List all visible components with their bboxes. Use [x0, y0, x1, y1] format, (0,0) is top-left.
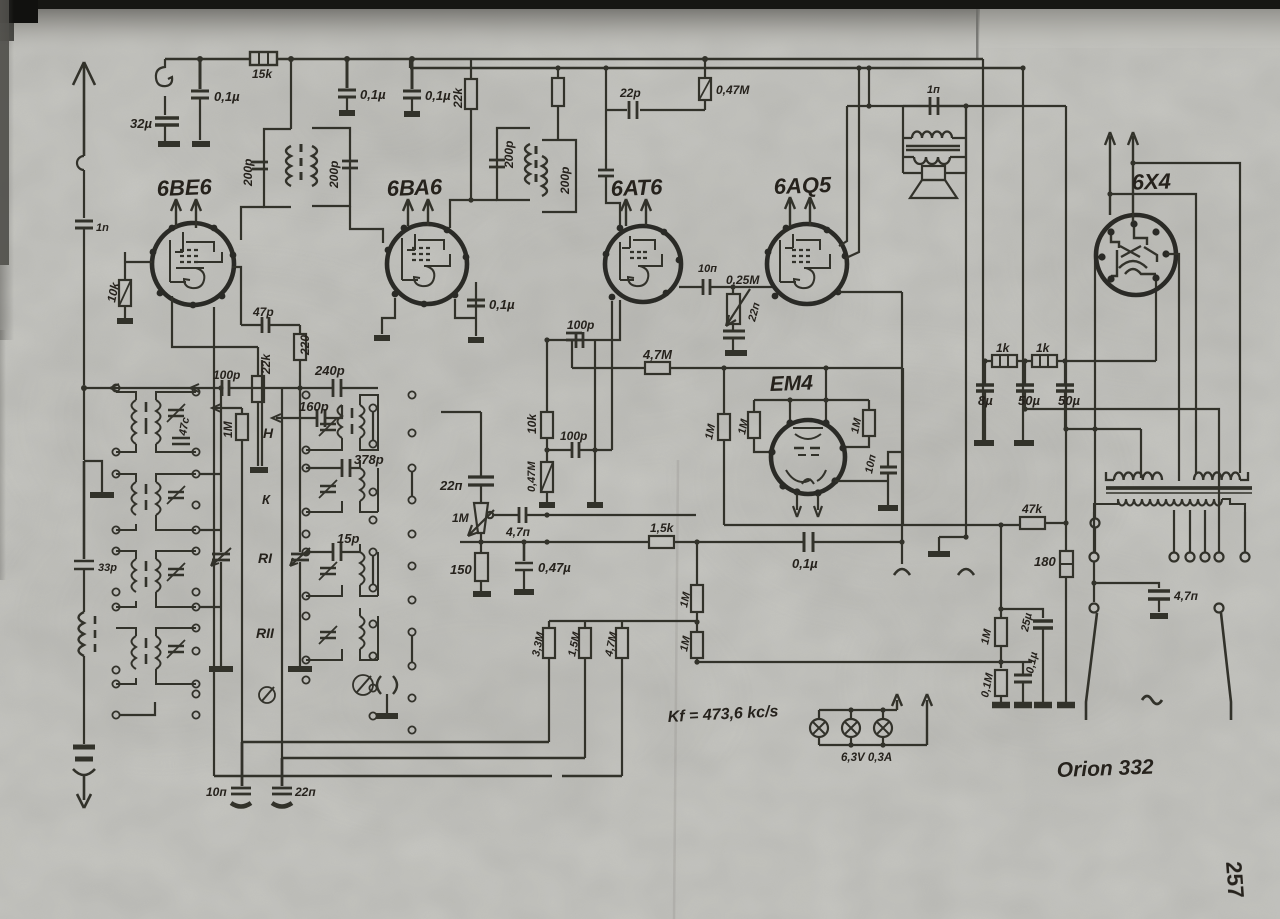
svg-text:4,7п: 4,7п — [505, 525, 531, 539]
capacitor 0.1u cathode — [455, 299, 476, 318]
wire 25u branch — [1001, 609, 1043, 618]
capacitor 378p — [342, 459, 350, 477]
capacitor 22n — [723, 331, 745, 338]
tube 6X4 envelope — [1096, 215, 1176, 295]
resistor 15k — [250, 52, 277, 65]
transformer power primary coils — [1106, 472, 1162, 480]
coil IFT2 secondary — [542, 156, 547, 196]
resistor 1.5M — [584, 621, 586, 758]
capacitor 0.1u (left) — [197, 56, 203, 62]
svg-text:32µ: 32µ — [130, 116, 152, 131]
osc coil group 2 — [360, 468, 365, 501]
switch mains pole2 — [1215, 604, 1224, 613]
wire y542 — [460, 541, 649, 543]
wire tuning gang left x221 — [220, 388, 222, 666]
left edge scan shadow — [0, 0, 9, 265]
ground 0.1M — [992, 702, 1010, 709]
capacitor 22p — [629, 101, 637, 119]
svg-text:22п: 22п — [439, 478, 462, 493]
tube 6X4 internals — [1111, 224, 1157, 276]
lamp bus bottom — [819, 737, 927, 745]
svg-text:22п: 22п — [294, 785, 316, 799]
resistor 4.7M — [645, 362, 670, 374]
earth arrow bottom — [73, 769, 95, 775]
svg-text:0,1µ: 0,1µ — [214, 89, 240, 104]
tube 6BA6 internals — [402, 234, 450, 286]
ground 8u — [974, 440, 994, 446]
svg-text:6,3V 0,3A: 6,3V 0,3A — [841, 752, 892, 764]
coil antenna RII — [79, 612, 85, 656]
resistor 180 — [1060, 551, 1073, 577]
svg-text:6ВА6: 6ВА6 — [386, 174, 443, 201]
wire drop x1001 — [1000, 525, 1002, 606]
wire riser x869 — [868, 68, 870, 106]
capacitor 100p AVC left — [566, 333, 582, 340]
svg-text:100p: 100p — [560, 429, 587, 443]
capacitor 47p — [262, 317, 269, 333]
capacitor 33p — [74, 461, 94, 569]
svg-text:RII: RII — [256, 625, 275, 641]
wire primary feed — [1095, 257, 1102, 553]
svg-text:47k: 47k — [1021, 502, 1043, 516]
wire 6BE6 g3 row 47p — [232, 267, 300, 325]
svg-text:Orion 332: Orion 332 — [1056, 756, 1154, 782]
capacitor 0.1u (mid) — [344, 56, 350, 62]
tube EM4 internals — [786, 428, 826, 484]
svg-text:0,47M: 0,47M — [716, 83, 750, 97]
wire 6AQ5 plate riser — [839, 106, 847, 246]
core IFT1 dashed — [300, 144, 303, 180]
wire 6AT6 diode line — [595, 300, 620, 340]
ground 180 — [1057, 702, 1075, 709]
capacitor 160p — [317, 409, 325, 427]
core IFT2 dashed — [535, 146, 538, 182]
osc coil group 3 — [360, 552, 365, 585]
node antenna junction y388 — [81, 385, 87, 391]
ground cathode cap — [468, 337, 484, 343]
osc coil group 4 — [360, 616, 365, 649]
filament arrows 6AQ5 — [785, 197, 815, 226]
capacitor 22n bottom — [272, 758, 292, 794]
transformer output core — [906, 146, 960, 150]
wire to 4.7n — [1094, 562, 1159, 602]
resistor 1M (psu divider) — [998, 606, 1003, 611]
capacitor 100p (AM det) — [576, 332, 583, 348]
top black scan bar — [0, 0, 1280, 9]
wire resistor tops y621 — [549, 620, 697, 622]
wire 378p line — [306, 467, 360, 469]
resistor 1M AVC — [241, 408, 243, 742]
resistor 22k AVC — [252, 376, 264, 402]
wire antenna lead hook — [77, 156, 84, 170]
capacitor 50u a — [1016, 385, 1034, 391]
dial lamp small — [259, 687, 275, 703]
capacitor 10n bottom — [231, 742, 251, 794]
switch mains pole1 — [1090, 604, 1099, 613]
wire 15p line — [306, 551, 360, 553]
capacitor 10n EM4 — [835, 480, 888, 482]
svg-text:15k: 15k — [252, 67, 273, 81]
svg-text:100p: 100p — [567, 318, 594, 332]
resistor 1M b — [691, 632, 703, 658]
wire grid line y388 — [84, 387, 378, 389]
capacitor 0.47u — [515, 542, 533, 570]
wire 6BA6 plate — [450, 200, 497, 228]
wire top bus B+ — [165, 58, 983, 61]
wire band bus x262 — [261, 360, 263, 466]
wire 160p line — [276, 405, 342, 418]
capacitor 0.1u (right) — [409, 56, 415, 62]
capacitor 15p — [333, 543, 341, 561]
svg-text:180: 180 — [1034, 554, 1056, 569]
tube 6BA6 pin dots — [385, 225, 470, 308]
svg-text:К: К — [262, 492, 271, 507]
svg-text:1M: 1M — [221, 420, 235, 438]
wire band bus x214 — [213, 307, 215, 776]
wire IFT1 grid lead — [350, 206, 383, 243]
ground 50u — [1014, 440, 1034, 446]
variable capacitor gang A — [212, 554, 230, 560]
resistor 150 — [480, 542, 482, 591]
wire 6AQ5 cathode drops — [838, 106, 966, 564]
transformer power core — [1106, 486, 1252, 490]
resistor 3.3M — [548, 621, 550, 742]
resistor 1M EM4 left — [754, 400, 771, 452]
svg-text:22k: 22k — [259, 353, 273, 375]
terminal circles secondary — [1090, 553, 1099, 562]
wire 22p grid line — [606, 68, 705, 110]
coil IFT1 primary — [286, 146, 291, 186]
ground 25u — [1034, 702, 1052, 709]
dial lamp big — [353, 675, 373, 695]
svg-text:1M: 1M — [452, 511, 470, 525]
capacitor 10n coupling — [703, 279, 710, 295]
hook terminal b — [958, 569, 974, 575]
wire band bus x282 — [281, 388, 283, 758]
ground 10n EM4 — [878, 505, 898, 511]
coil 32u choke — [156, 59, 172, 86]
top-left black corner blob — [0, 0, 38, 23]
speaker — [922, 166, 945, 180]
wire bottom small L — [119, 702, 155, 715]
filament arrows 6AT6 — [621, 199, 651, 226]
wire 6X4 heater lines — [1133, 163, 1240, 473]
svg-text:1k: 1k — [996, 341, 1011, 355]
ground 0.1u bias — [1014, 702, 1032, 709]
AC symbol — [1142, 696, 1162, 704]
capacitor antenna bottom — [73, 747, 95, 759]
svg-text:RI: RI — [258, 550, 273, 566]
svg-text:6X4: 6X4 — [1131, 168, 1171, 194]
svg-text:33p: 33p — [98, 562, 117, 574]
capacitor 200p IFT2 left — [489, 160, 505, 167]
svg-text:200p: 200p — [558, 167, 572, 195]
filament arrows 6BA6 — [403, 199, 433, 226]
capacitor 1n antenna — [75, 221, 93, 228]
IF transformer 1 right box — [312, 128, 350, 206]
svg-text:4,7п: 4,7п — [1173, 589, 1199, 603]
svg-text:240p: 240p — [314, 363, 345, 378]
tube EM4 pin dots — [768, 419, 846, 496]
svg-text:15p: 15p — [337, 531, 359, 546]
capacitor 8u — [976, 385, 994, 391]
capacitor 0.1u bias — [1014, 675, 1032, 682]
capacitor 4.7n — [1148, 591, 1170, 599]
phones jack — [377, 676, 397, 694]
svg-text:22p: 22p — [619, 86, 641, 100]
dumbbell links — [373, 412, 412, 662]
wire cathode ground link — [939, 537, 966, 551]
wire 6AT6 plate coupling — [679, 286, 775, 288]
node bus at 291 — [288, 56, 294, 62]
svg-text:0,1µ: 0,1µ — [360, 87, 386, 102]
resistor 10k grid leak — [124, 252, 126, 318]
resistor 47k — [1020, 517, 1045, 529]
svg-text:378p: 378p — [354, 452, 384, 467]
filament arrows EM4 down — [793, 494, 822, 517]
svg-text:0,1µ: 0,1µ — [489, 297, 515, 312]
capacitor 1n tone — [903, 106, 966, 173]
svg-text:22k: 22k — [451, 87, 465, 109]
svg-text:6AQ5: 6AQ5 — [773, 172, 832, 199]
IF transformer 1 left box — [264, 129, 291, 207]
resistor 220 — [299, 325, 301, 388]
EM4 outer box right — [902, 368, 904, 525]
frame line 2 — [282, 757, 585, 759]
potentiometer 1M tone — [487, 512, 493, 518]
frame line 3 — [214, 775, 622, 777]
ground 22n — [725, 350, 747, 356]
wire 6BA6 cathode — [382, 298, 395, 334]
svg-text:8µ: 8µ — [978, 393, 993, 408]
ground 6BA6 cathode — [374, 335, 390, 341]
tube 6BE6 pin dots — [150, 225, 237, 309]
wire AVC 4.7M line — [572, 367, 903, 369]
capacitor 0.1u coupling — [804, 532, 813, 552]
svg-text:200p: 200p — [502, 141, 516, 169]
terminal circles mid column — [192, 388, 199, 395]
svg-text:257: 257 — [1221, 861, 1249, 899]
wire rail2 drop — [1022, 68, 1024, 440]
transformer power secondary — [1094, 499, 1245, 512]
svg-text:1n: 1n — [96, 222, 109, 234]
tube 6X4 pin dots — [1098, 220, 1169, 282]
capacitor 32u — [155, 118, 179, 125]
svg-text:6АТ6: 6АТ6 — [610, 174, 663, 201]
resistor 1k a — [982, 358, 987, 363]
wire output line y106 — [847, 105, 1066, 107]
svg-text:47p: 47p — [252, 305, 274, 319]
svg-text:H: H — [263, 425, 274, 441]
resistor 0.47M det — [541, 462, 553, 492]
svg-text:0,47M: 0,47M — [526, 461, 538, 492]
capacitor 25u — [1033, 621, 1053, 628]
capacitor 22n tone — [468, 477, 494, 485]
capacitor 240p — [333, 379, 341, 397]
resistor 1M a — [691, 585, 703, 612]
secondary taps — [1094, 510, 1245, 553]
antenna coil group H — [116, 392, 136, 452]
capacitor 4.7p — [519, 507, 526, 523]
transformer output primary — [903, 137, 966, 139]
resistor 22k screen — [470, 59, 472, 200]
capacitor 200p IFT1 left — [252, 162, 268, 169]
potentiometer 0.25M volume — [730, 284, 735, 289]
wire 6X4 cathode link — [1155, 278, 1157, 361]
tube 6BE6 internals — [170, 232, 222, 288]
resistor 1M EM4 right — [843, 400, 869, 447]
resistor 4.7M b — [621, 621, 623, 776]
svg-text:4,7M: 4,7M — [642, 347, 673, 362]
capacitor 100p band — [222, 380, 229, 396]
coil IFT2 primary — [525, 144, 530, 184]
capacitor 200p IFT2 right — [598, 170, 614, 176]
wire bias bus y662 — [697, 661, 1032, 663]
svg-text:50µ: 50µ — [1018, 393, 1040, 408]
IF transformer 2 left box — [497, 128, 530, 200]
svg-text:10п: 10п — [206, 785, 227, 799]
resistor 22k (6BA6 screen) — [557, 68, 559, 140]
tube 6AQ5 pin dots — [765, 225, 849, 300]
lamp circles — [810, 719, 828, 737]
lamp bus top — [819, 710, 897, 719]
terminal circles left column — [112, 384, 119, 391]
filament arrows 6X4 — [1105, 132, 1138, 222]
svg-text:0,1µ: 0,1µ — [792, 556, 818, 571]
wire primary lead — [1140, 429, 1142, 478]
tube 6AT6 envelope — [605, 226, 681, 302]
resistor 10k det — [546, 340, 548, 462]
antenna symbol — [73, 62, 95, 156]
resistor 1k b — [1032, 355, 1057, 367]
variable capacitor gang B — [291, 554, 309, 560]
EM4 inner top — [754, 399, 869, 401]
svg-text:1k: 1k — [1036, 341, 1051, 355]
tube 6BA6 envelope — [387, 224, 467, 304]
EM4 outer box left / resistor 1M — [723, 368, 725, 525]
transformer output secondary — [903, 156, 966, 158]
wire 6AQ5 screen riser — [846, 68, 859, 258]
tube 6AT6 pin dots — [603, 225, 683, 301]
coil IFT1 secondary — [312, 146, 317, 186]
capacitor 50u b — [1056, 385, 1074, 391]
svg-text:0,47µ: 0,47µ — [538, 560, 571, 575]
terminal circles osc left column — [302, 391, 309, 398]
wire det out y515 — [526, 514, 696, 516]
wire 6BE6 cathode to 1M bus — [172, 296, 258, 347]
hook terminal a — [894, 569, 910, 575]
tube 6AQ5 envelope — [767, 224, 847, 304]
terminal circles osc right column — [408, 391, 415, 398]
osc coil group 1 — [338, 405, 343, 438]
ground antenna branch — [84, 461, 102, 492]
frame line 1 — [241, 741, 549, 743]
wire AVC to 595 ground — [594, 340, 596, 502]
svg-text:EM4: EM4 — [769, 371, 813, 396]
antenna coil group K — [116, 474, 136, 530]
tube 6BE6 envelope — [152, 223, 234, 305]
svg-text:0,25M: 0,25M — [726, 273, 760, 287]
antenna coil group RI — [116, 551, 136, 607]
wire bus2 screen rail — [410, 67, 1023, 69]
switch contacts y388 — [110, 384, 199, 392]
IF transformer 2 right box — [542, 140, 576, 212]
svg-text:6BE6: 6BE6 — [156, 174, 213, 201]
svg-text:10k: 10k — [525, 413, 539, 434]
filament feed arrows — [892, 694, 902, 710]
tube EM4 envelope — [771, 420, 845, 494]
svg-text:10п: 10п — [698, 263, 717, 275]
filament arrows 6BE6 — [171, 199, 201, 228]
wire EM4 bottom bus to 47k — [724, 524, 1020, 526]
capacitor 200p IFT1 right — [342, 161, 358, 168]
svg-text:160p: 160p — [299, 399, 329, 414]
wire gang taps — [199, 474, 221, 607]
svg-text:1п: 1п — [927, 84, 940, 96]
tube 6AQ5 internals — [780, 234, 830, 288]
wire B+ drop x1066 — [1065, 106, 1067, 704]
svg-text:100p: 100p — [213, 368, 240, 382]
resistor 0.47M — [704, 59, 706, 110]
antenna coil group RII — [116, 628, 136, 684]
svg-text:200p: 200p — [241, 159, 255, 187]
svg-text:150: 150 — [450, 562, 472, 577]
resistor 1.5k — [649, 536, 674, 548]
wire 6X4 plate drop — [1166, 254, 1179, 481]
top scan shadow band — [0, 6, 1280, 56]
resistor 0.1M — [995, 670, 1007, 696]
tube 6AT6 internals — [620, 236, 662, 286]
wire IFT1 plate lead — [241, 207, 264, 240]
svg-text:200p: 200p — [327, 161, 341, 189]
wire 100p AVC line — [547, 301, 612, 450]
wire 50u to tap — [1025, 409, 1219, 552]
svg-text:220: 220 — [298, 335, 312, 356]
svg-text:0,1µ: 0,1µ — [425, 88, 451, 103]
svg-text:50µ: 50µ — [1058, 393, 1080, 408]
wire screen feed right — [982, 59, 984, 440]
capacitor 100p lower — [572, 442, 579, 458]
wire tuning gang right x300 — [299, 388, 301, 666]
svg-text:1,5k: 1,5k — [650, 521, 675, 535]
